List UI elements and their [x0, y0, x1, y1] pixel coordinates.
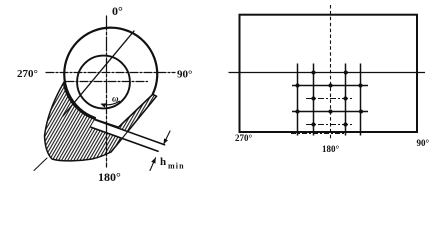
grid vertical 1	[297, 64, 299, 136]
svg-text:min: min	[168, 162, 185, 171]
horizontal axis through rectangle	[229, 72, 426, 74]
white channel (h_min gap)	[91, 120, 166, 152]
channel lower line	[91, 127, 158, 151]
rectangle frame	[240, 15, 418, 132]
dash-dot echo line below rectangle bottom	[291, 133, 346, 135]
channel upper line	[95, 120, 165, 145]
svg-text:0°: 0°	[112, 4, 123, 18]
hatched bearing-bush region	[45, 83, 157, 161]
grid horizontal dashdot 1	[306, 98, 354, 100]
svg-text:180°: 180°	[322, 144, 340, 154]
sagging bore edge curve	[119, 94, 153, 127]
horizontal line through journal centre	[66, 81, 148, 83]
svg-text:ω: ω	[112, 94, 119, 104]
grid vertical 2	[313, 64, 315, 136]
svg-text:270°: 270°	[235, 133, 253, 143]
grid horizontal dashdot 2	[306, 124, 354, 126]
grid horizontal solid 1	[292, 85, 368, 87]
bearing bore circle	[64, 28, 157, 118]
grid vertical 3	[345, 64, 347, 136]
grid horizontal solid 2	[292, 111, 368, 113]
journal circle	[77, 56, 130, 109]
svg-text:270°: 270°	[17, 68, 38, 80]
svg-text:90°: 90°	[177, 69, 192, 81]
grid vertical 4	[360, 64, 362, 136]
svg-text:h: h	[160, 156, 166, 168]
measurement dots	[295, 70, 363, 126]
dashed vertical centre line	[330, 5, 332, 141]
h_min dimension arrow lower	[150, 157, 156, 170]
horizontal axis 270-90 dash-dot	[46, 72, 175, 74]
bush end-face line crossing the channel	[111, 96, 157, 152]
svg-text:180°: 180°	[98, 170, 121, 184]
vertical centre line	[106, 16, 108, 167]
rotation arrow arc	[102, 101, 120, 105]
svg-text:90°: 90°	[417, 138, 430, 148]
h_min dimension arrow upper	[164, 131, 170, 144]
diagonal line of centres	[63, 31, 134, 116]
tail line at blob tip	[34, 158, 47, 171]
